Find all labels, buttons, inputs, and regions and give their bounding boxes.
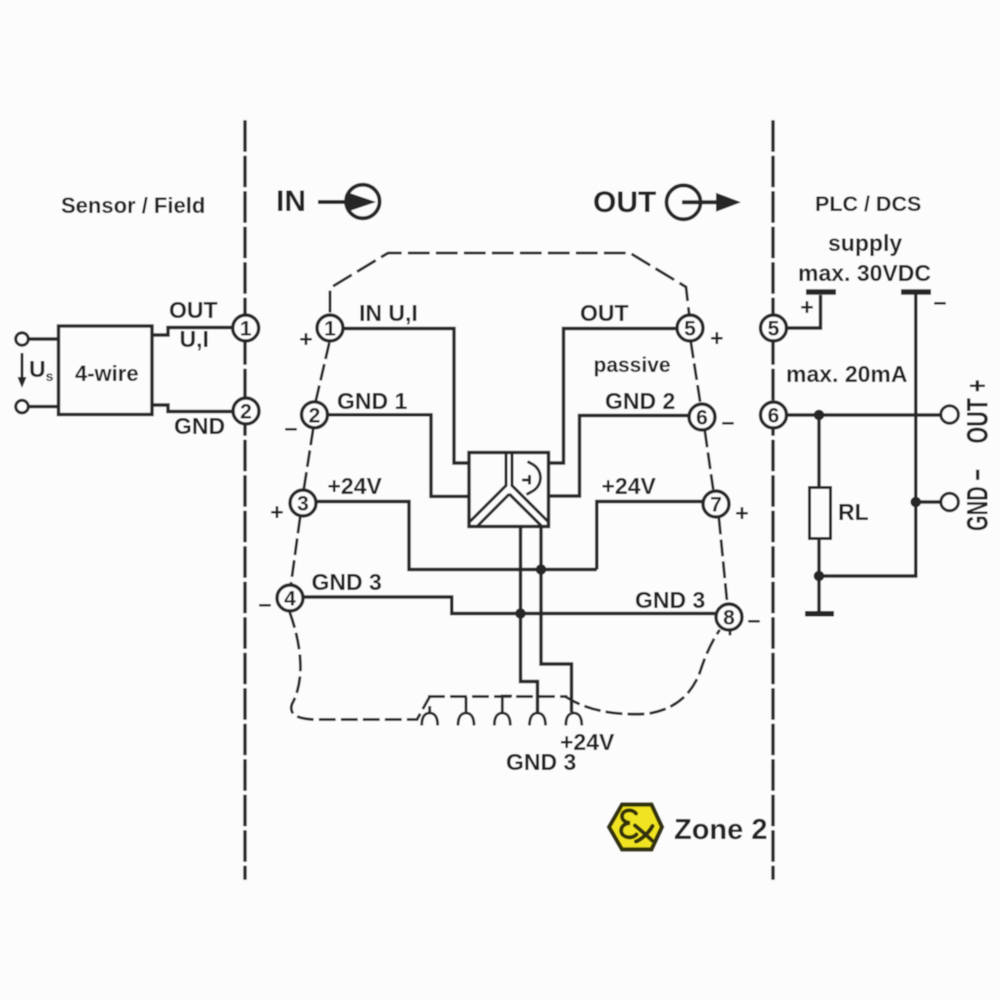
isolator Y symbol inner left stroke: [478, 494, 509, 526]
wire sensor top terminal to 4-wire box: [29, 337, 59, 340]
svg-text:+: +: [800, 294, 813, 320]
terminal 2 left column: [233, 398, 259, 424]
terminal 4 module: [277, 585, 303, 611]
OUT direction symbol: [667, 185, 742, 219]
svg-text:1: 1: [240, 318, 252, 341]
terminal 1 module: [317, 315, 343, 341]
svg-text:−: −: [933, 290, 946, 316]
shield contact 2: [458, 697, 474, 726]
IN direction symbol: [318, 185, 380, 219]
sensor terminal top circle: [16, 333, 29, 346]
svg-text:max. 20mA: max. 20mA: [786, 361, 907, 387]
isolator module box U1: [469, 453, 549, 527]
junction dot terminal 6 RL: [814, 410, 825, 421]
wire terminal 6 GND 2 to module: [548, 416, 688, 497]
device dashed boundary bottom line: [430, 695, 567, 698]
GND minus terminal circle: [941, 493, 959, 511]
terminal 6 plc column: [761, 402, 787, 428]
svg-text:5: 5: [768, 318, 780, 341]
svg-text:8: 8: [723, 607, 735, 630]
svg-text:OUT: OUT: [580, 300, 629, 326]
svg-text:GND 2: GND 2: [605, 388, 675, 414]
svg-text:+24V: +24V: [602, 473, 657, 499]
sensor 4-wire transmitter box: [59, 326, 153, 415]
Us source voltage arrow: [18, 353, 27, 388]
wire to GND minus terminal: [916, 500, 941, 503]
svg-text:GND −: GND −: [962, 469, 995, 531]
svg-text:4-wire: 4-wire: [75, 361, 139, 386]
terminal 5 module: [677, 315, 703, 341]
wire terminal 2 to module GND 1: [328, 415, 470, 497]
shield contact 4: [530, 713, 546, 726]
device dashed boundary right column: [691, 343, 730, 634]
wire module bottom to +24V shield: [541, 527, 572, 713]
wire terminal 1 to module IN: [343, 329, 470, 464]
svg-text:max. 30VDC: max. 30VDC: [798, 260, 931, 286]
svg-text:GND 3: GND 3: [506, 749, 576, 775]
svg-text:RL: RL: [838, 499, 869, 525]
wire terminal 5 to supply plus: [787, 295, 821, 328]
OUT plus terminal circle: [941, 406, 959, 424]
terminal 6 module: [689, 404, 715, 430]
wire supply minus down to load return: [819, 295, 916, 577]
wire RL to ground: [817, 539, 820, 613]
svg-text:5: 5: [684, 318, 696, 341]
svg-text:OUT +: OUT +: [962, 380, 995, 444]
svg-text:−: −: [284, 416, 297, 442]
terminal 5 plc column: [761, 315, 787, 341]
wire terminal 3 +24V to bottom rail: [316, 502, 597, 570]
terminal 3 module: [290, 490, 316, 516]
svg-text:+24V: +24V: [328, 473, 383, 499]
svg-text:1: 1: [324, 318, 336, 341]
device dashed boundary left column: [291, 344, 329, 584]
svg-text:Sensor / Field: Sensor / Field: [61, 193, 205, 218]
svg-text:U,I: U,I: [180, 326, 209, 352]
wire 4-wire box GND to terminal 2: [152, 405, 234, 412]
junction dot GND 3 rail: [515, 608, 526, 619]
svg-text:2: 2: [240, 401, 252, 424]
supply plus bar: [806, 289, 836, 295]
zone separator dashed line left: [243, 122, 246, 878]
svg-text:passive: passive: [594, 354, 671, 377]
sensor terminal bottom circle: [16, 400, 29, 413]
svg-text:GND 3: GND 3: [312, 569, 382, 595]
resistor RL: [810, 488, 831, 539]
wire junction to RL: [817, 415, 820, 488]
svg-text:OUT: OUT: [169, 297, 218, 323]
svg-text:GND 1: GND 1: [337, 388, 408, 414]
junction dot supply minus GND: [911, 497, 922, 508]
Ex hexagon logo: [609, 805, 662, 850]
svg-text:PLC / DCS: PLC / DCS: [815, 192, 921, 216]
svg-text:6: 6: [696, 407, 708, 430]
zone separator dashed line right: [771, 122, 774, 878]
ground bar load return: [805, 611, 834, 617]
terminal 1 left column: [233, 315, 259, 341]
svg-text:+: +: [270, 499, 283, 525]
wire module bottom to GND 3 shield: [521, 527, 538, 713]
terminal 7 module: [703, 491, 729, 517]
svg-text:OUT: OUT: [593, 186, 656, 219]
transistor symbol inside module: [522, 462, 540, 495]
svg-text:GND 3: GND 3: [635, 587, 705, 613]
svg-text:2: 2: [309, 404, 321, 427]
svg-text:3: 3: [297, 493, 309, 516]
supply minus bar: [901, 289, 931, 295]
wire 4-wire box OUT to terminal 1: [152, 328, 233, 336]
svg-text:7: 7: [710, 494, 722, 517]
svg-text:6: 6: [768, 405, 780, 428]
isolator Y symbol outer left stroke: [470, 453, 506, 522]
svg-text:−: −: [258, 592, 271, 618]
svg-text:+: +: [735, 500, 748, 526]
shield contact 3: [494, 696, 512, 726]
svg-text:supply: supply: [828, 230, 902, 256]
wire terminal 6 to OUT plus terminal: [787, 413, 942, 416]
svg-text:GND: GND: [174, 413, 225, 439]
terminal 8 module: [716, 604, 742, 630]
wire terminal 7 +24V to bottom rail: [597, 502, 702, 570]
shield contact 1 diagonal stub: [428, 706, 431, 713]
shield contact 1: [422, 713, 438, 726]
isolator Y symbol inner right stroke: [509, 494, 541, 526]
svg-text:+: +: [299, 326, 312, 352]
wire terminal 4 GND 3 to terminal 8: [303, 597, 715, 614]
svg-text:−: −: [721, 410, 734, 436]
junction dot RL bottom: [814, 571, 825, 582]
terminal 2 module: [302, 402, 328, 428]
shield contact 5: [566, 713, 582, 726]
wire terminal 5 OUT to module: [548, 329, 677, 464]
device dashed boundary top: [330, 253, 689, 313]
isolator Y symbol outer right stroke: [512, 453, 548, 522]
wire sensor bottom terminal to 4-wire box: [29, 405, 59, 408]
junction dot +24V rail: [536, 564, 547, 575]
device dashed boundary bottom right curve: [566, 631, 719, 714]
svg-text:+: +: [710, 325, 723, 351]
svg-text:4: 4: [284, 588, 296, 611]
svg-text:−: −: [747, 608, 760, 634]
device dashed boundary bottom left curve: [290, 613, 430, 720]
svg-text:Zone 2: Zone 2: [674, 814, 767, 846]
svg-text:IN: IN: [276, 185, 306, 218]
svg-text:IN U,I: IN U,I: [359, 300, 418, 326]
